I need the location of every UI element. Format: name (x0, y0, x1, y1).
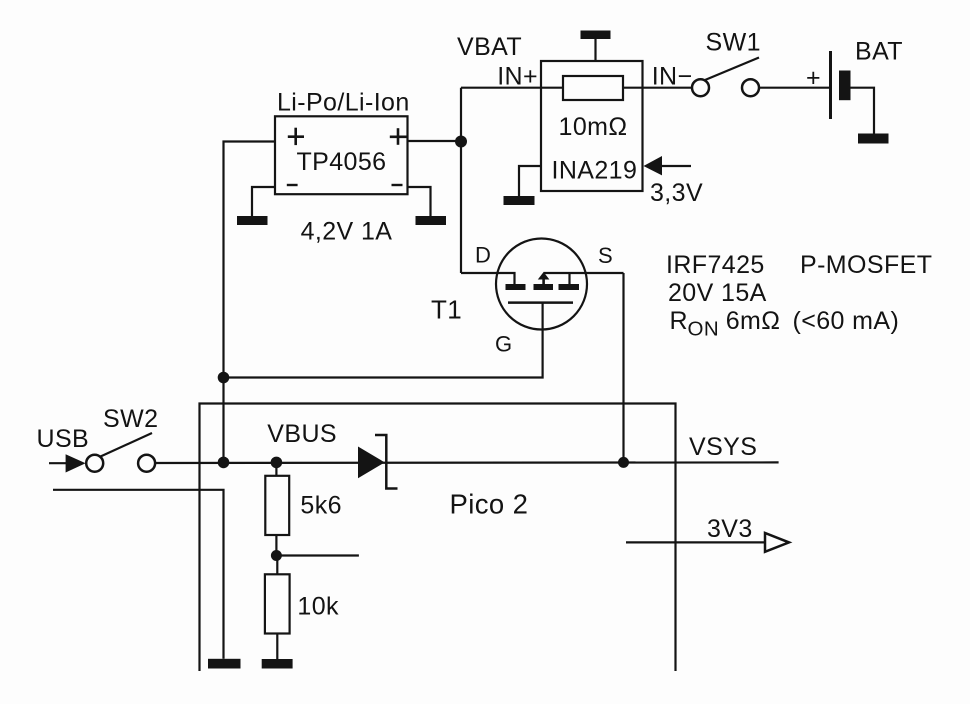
svg-text:3V3: 3V3 (707, 515, 753, 543)
svg-text:D: D (475, 243, 491, 268)
svg-text:3,3V: 3,3V (650, 179, 703, 207)
svg-text:6mΩ: 6mΩ (726, 307, 781, 335)
svg-text:P-MOSFET: P-MOSFET (800, 251, 932, 279)
svg-text:S: S (598, 243, 613, 268)
svg-text:IN−: IN− (652, 63, 693, 91)
svg-text:ON: ON (688, 318, 720, 341)
svg-text:SW1: SW1 (706, 29, 761, 57)
svg-text:T1: T1 (431, 295, 462, 325)
svg-text:IRF7425: IRF7425 (666, 251, 765, 279)
svg-text:Li-Po/Li-Ion: Li-Po/Li-Ion (277, 89, 410, 117)
svg-text:VBUS: VBUS (267, 420, 337, 448)
svg-text:SW2: SW2 (103, 405, 158, 433)
svg-text:TP4056: TP4056 (297, 148, 387, 176)
svg-text:(<60 mA): (<60 mA) (793, 307, 900, 335)
svg-text:10mΩ: 10mΩ (559, 113, 628, 141)
svg-text:10k: 10k (297, 592, 339, 620)
svg-text:IN+: IN+ (497, 63, 538, 91)
svg-text:VBAT: VBAT (457, 33, 522, 61)
svg-text:+: + (806, 64, 821, 92)
svg-text:Pico 2: Pico 2 (450, 489, 529, 520)
svg-text:5k6: 5k6 (300, 492, 342, 520)
svg-text:4,2V 1A: 4,2V 1A (301, 218, 393, 246)
svg-text:20V 15A: 20V 15A (668, 279, 767, 307)
svg-text:R: R (670, 307, 688, 335)
svg-text:INA219: INA219 (552, 157, 638, 185)
svg-text:BAT: BAT (855, 38, 903, 66)
svg-text:VSYS: VSYS (689, 433, 757, 461)
svg-text:G: G (495, 332, 513, 357)
svg-text:USB: USB (37, 425, 90, 453)
